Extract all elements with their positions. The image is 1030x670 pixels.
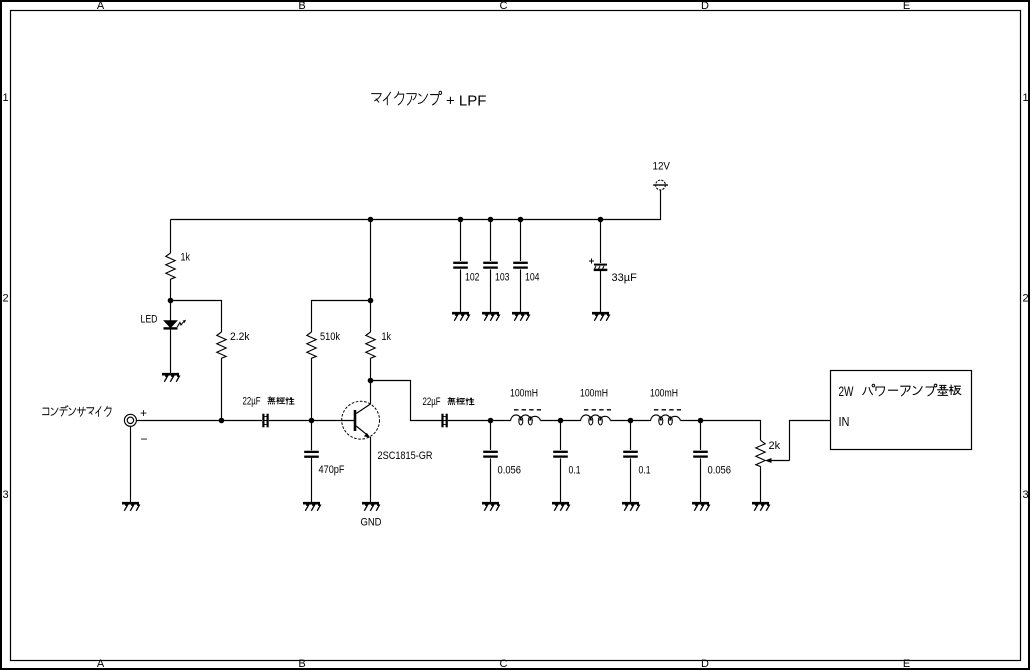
ground (LED) bbox=[162, 373, 179, 376]
wire inductor in bbox=[631, 420, 652, 422]
wire C1 to base node bbox=[269, 420, 312, 422]
wire 2.2k to mic line bbox=[221, 358, 223, 421]
svg-text:A: A bbox=[97, 658, 105, 670]
svg-text:470pF: 470pF bbox=[319, 464, 345, 476]
junction LPF node 3 bbox=[628, 418, 634, 424]
node LED anode bbox=[168, 298, 174, 304]
svg-text:2: 2 bbox=[3, 293, 9, 305]
svg-text:LED: LED bbox=[141, 314, 158, 326]
microphone コンデンサマイク bbox=[43, 406, 148, 446]
wire collector to C2 bbox=[371, 381, 442, 421]
wire C2 to LPF bbox=[448, 420, 491, 422]
capacitor 0.056 (LPF) bbox=[693, 421, 731, 503]
ground (cap 0.056) bbox=[692, 502, 709, 505]
capacitor 33µF electrolytic bbox=[589, 220, 637, 313]
svg-text:104: 104 bbox=[525, 272, 540, 284]
wire R 1k to LED node bbox=[170, 279, 172, 301]
title マイクアンプ + LPF bbox=[372, 91, 487, 109]
capacitor 0.1 (LPF) bbox=[553, 421, 580, 503]
svg-text:2SC1815-GR: 2SC1815-GR bbox=[378, 450, 433, 462]
ground (cap 0.1) bbox=[622, 502, 639, 505]
wire emitter to ground bbox=[370, 437, 372, 503]
capacitor 102 bbox=[453, 220, 479, 313]
capacitor 22µF 無極性 C1 bbox=[243, 396, 295, 428]
resistor 1k (collector) bbox=[366, 331, 392, 358]
LED bbox=[141, 301, 187, 329]
capacitor 104 bbox=[513, 220, 539, 313]
wire R1k to collector node bbox=[370, 358, 372, 381]
junction base node bbox=[309, 418, 315, 424]
ground GND (emitter) bbox=[361, 503, 382, 528]
wire inductor in bbox=[561, 420, 582, 422]
wire inductor in bbox=[491, 420, 512, 422]
ground (33µF) bbox=[592, 312, 609, 315]
svg-text:B: B bbox=[298, 658, 305, 670]
svg-text:22µF: 22µF bbox=[423, 396, 441, 408]
capacitor 470pF bbox=[304, 421, 345, 477]
junction bus/R1k bbox=[368, 217, 374, 223]
svg-text:103: 103 bbox=[495, 272, 510, 284]
junction bus/C103 bbox=[488, 217, 494, 223]
svg-text:3: 3 bbox=[1023, 489, 1029, 501]
ground (cap 103) bbox=[482, 312, 499, 315]
junction bus/C104 bbox=[518, 217, 524, 223]
svg-text:2.2k: 2.2k bbox=[230, 331, 250, 343]
wire bus to R1k(coll) bbox=[370, 220, 372, 333]
capacitor 22µF 無極性 C2 bbox=[423, 396, 475, 427]
junction LPF node 4 bbox=[698, 418, 704, 424]
ground (cap 102) bbox=[452, 312, 469, 315]
svg-text:100mH: 100mH bbox=[580, 388, 608, 400]
wire 510k bottom bbox=[311, 358, 313, 421]
wire 470pF to ground bbox=[311, 458, 313, 503]
junction collector feed bbox=[368, 298, 374, 304]
wire node to 2.2k bbox=[171, 301, 222, 333]
svg-text:1k: 1k bbox=[181, 252, 191, 264]
transistor Q1 2SC1815-GR bbox=[312, 381, 433, 463]
svg-text:102: 102 bbox=[465, 272, 480, 284]
svg-text:C: C bbox=[500, 658, 508, 670]
svg-text:E: E bbox=[903, 658, 910, 670]
resistor 2.2k bbox=[217, 331, 250, 358]
capacitor 0.056 (LPF) bbox=[483, 421, 521, 503]
ground (mic) bbox=[122, 502, 139, 505]
svg-text:0.056: 0.056 bbox=[708, 465, 732, 477]
junction bus/C33u bbox=[598, 217, 604, 223]
svg-text:1: 1 bbox=[1023, 92, 1029, 104]
wire bus to R 1k bbox=[170, 220, 172, 254]
svg-text:E: E bbox=[903, 0, 910, 12]
svg-text:0.1: 0.1 bbox=[569, 465, 581, 477]
svg-text:+ LPF: + LPF bbox=[446, 93, 486, 110]
ground (cap 0.1) bbox=[552, 502, 569, 505]
junction bus/C102 bbox=[458, 217, 464, 223]
svg-text:0.1: 0.1 bbox=[639, 465, 651, 477]
wire wiper to amp board bbox=[790, 421, 831, 461]
svg-text:C: C bbox=[500, 0, 508, 12]
wire inductor out bbox=[541, 420, 561, 422]
svg-text:D: D bbox=[701, 658, 709, 670]
ground (470pF) bbox=[303, 502, 320, 505]
svg-text:2k: 2k bbox=[769, 440, 781, 452]
svg-text:3: 3 bbox=[3, 489, 9, 501]
svg-text:100mH: 100mH bbox=[510, 388, 538, 400]
svg-text:1: 1 bbox=[3, 92, 9, 104]
svg-text:−: − bbox=[141, 432, 148, 446]
capacitor 103 bbox=[483, 220, 509, 313]
wire inductor out bbox=[681, 420, 701, 422]
wire 510k top bbox=[312, 301, 371, 333]
svg-text:1k: 1k bbox=[382, 331, 392, 343]
svg-text:2W: 2W bbox=[839, 384, 854, 399]
ground (cap 104) bbox=[512, 312, 529, 315]
junction collector node bbox=[368, 378, 374, 384]
svg-text:100mH: 100mH bbox=[650, 388, 678, 400]
inductor 100mH L1 bbox=[510, 388, 541, 426]
wire LED to ground bbox=[170, 330, 172, 374]
ground (pot) bbox=[752, 502, 769, 505]
wire LPF to pot bbox=[701, 421, 761, 441]
inductor 100mH L3 bbox=[650, 388, 681, 426]
resistor 1k bbox=[166, 252, 191, 280]
svg-text:A: A bbox=[97, 0, 105, 12]
wire mic to ground bbox=[130, 426, 132, 502]
junction mic line / 2.2k bbox=[219, 418, 225, 424]
svg-text:GND: GND bbox=[361, 517, 382, 529]
block 2W パワーアンプ基板 amp board bbox=[831, 371, 972, 450]
capacitor 0.1 (LPF) bbox=[623, 421, 650, 503]
junction LPF node 2 bbox=[558, 418, 564, 424]
wire pot to ground bbox=[760, 466, 762, 502]
wire 12V to bus bbox=[171, 190, 661, 220]
ground (cap 0.056) bbox=[482, 502, 499, 505]
svg-text:12V: 12V bbox=[653, 161, 671, 173]
svg-text:B: B bbox=[298, 0, 305, 12]
wire mic to C 22uF bbox=[137, 420, 263, 422]
svg-text:D: D bbox=[701, 0, 709, 12]
svg-text:+: + bbox=[140, 406, 147, 420]
svg-text:33µF: 33µF bbox=[612, 272, 638, 284]
resistor 510k bbox=[307, 331, 341, 358]
wire inductor out bbox=[611, 420, 631, 422]
svg-text:IN: IN bbox=[839, 414, 850, 429]
inductor 100mH L2 bbox=[580, 388, 611, 426]
svg-text:0.056: 0.056 bbox=[498, 465, 522, 477]
svg-text:2: 2 bbox=[1023, 293, 1029, 305]
potentiometer 2k bbox=[756, 440, 790, 467]
svg-text:510k: 510k bbox=[320, 331, 340, 343]
power symbol 12V bbox=[653, 161, 671, 190]
junction LPF node 1 bbox=[488, 418, 494, 424]
svg-text:22µF: 22µF bbox=[243, 396, 261, 408]
